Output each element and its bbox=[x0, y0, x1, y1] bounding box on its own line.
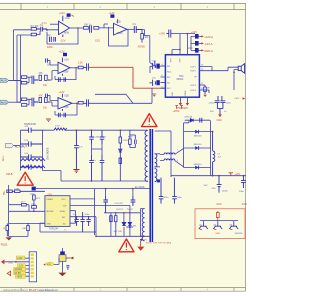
capacitor X2 bbox=[20, 140, 42, 147]
svg-text:U2B: U2B bbox=[64, 95, 69, 98]
IC right out wires bbox=[199, 67, 238, 71]
svg-text:PWRGND: PWRGND bbox=[177, 107, 188, 110]
svg-text:AGND: AGND bbox=[138, 45, 145, 48]
resistor R3 bbox=[84, 27, 89, 30]
svg-text:VCC: VCC bbox=[61, 199, 66, 201]
wire aux winding pins bbox=[140, 209, 144, 237]
resistor standby red bbox=[216, 211, 219, 221]
capacitor blue top Q bbox=[60, 251, 65, 254]
snubber cluster at xfmr bbox=[128, 130, 136, 147]
node stage3 out bbox=[76, 103, 78, 105]
wire R4 to buffer bbox=[99, 24, 114, 28]
wire X-cap rail right bbox=[42, 130, 44, 170]
svg-text:1N4148: 1N4148 bbox=[184, 117, 192, 119]
capacitor snubber bbox=[200, 118, 202, 123]
wire U2A output bbox=[70, 67, 78, 69]
wire U2A minus loop bbox=[47, 60, 58, 65]
svg-text:OUT2: OUT2 bbox=[190, 71, 197, 73]
capacitor X4 bbox=[20, 164, 42, 169]
ground pwm dark red bbox=[6, 237, 12, 240]
warning triangle 3 bbox=[119, 239, 134, 252]
capacitor stage3 fb bbox=[58, 113, 65, 117]
svg-text:4K7 10K: 4K7 10K bbox=[114, 231, 123, 233]
resistor startup Rb bbox=[12, 188, 45, 192]
svg-text:SD: SD bbox=[63, 223, 66, 225]
resistor opto b bbox=[115, 216, 118, 227]
wire standby bus bbox=[200, 221, 238, 223]
wire junction to op-amp bbox=[47, 30, 59, 31]
wire into U2A bbox=[49, 71, 58, 80]
svg-text:470u: 470u bbox=[164, 197, 170, 199]
resistor startup Ra bbox=[7, 190, 12, 193]
svg-text:-12V-A: -12V-A bbox=[204, 42, 212, 46]
svg-text:+12V: +12V bbox=[109, 11, 115, 15]
node rail a bbox=[212, 175, 214, 177]
speaker LS1 bbox=[238, 64, 244, 74]
inductor L2 vertical bbox=[213, 132, 222, 176]
svg-text:NC1: NC1 bbox=[167, 72, 172, 74]
capacitor stage3 upper bbox=[46, 94, 48, 98]
wire left bus 2 bbox=[17, 35, 21, 102]
svg-text:C0G: C0G bbox=[95, 40, 100, 43]
label pin6 yellow bbox=[15, 275, 25, 279]
title line bbox=[3, 288, 58, 292]
transistor Q3 bbox=[229, 223, 238, 230]
wire port AUX1 to network bbox=[9, 79, 21, 81]
svg-text:U2A: U2A bbox=[64, 58, 69, 61]
transformer aux winding bbox=[142, 209, 144, 241]
svg-text:+26V: +26V bbox=[235, 174, 241, 176]
wire rect box left rail bbox=[184, 120, 211, 176]
svg-text:CM-B: CM-B bbox=[6, 173, 13, 176]
capacitor out C31 bbox=[239, 176, 246, 193]
connector J1 bbox=[29, 252, 36, 282]
svg-text:2.2K: 2.2K bbox=[78, 63, 83, 65]
svg-text:C24 472: C24 472 bbox=[115, 203, 124, 205]
wire stage2 input row bbox=[9, 79, 22, 81]
svg-text:1mH: 1mH bbox=[55, 126, 60, 128]
svg-text:R 47: R 47 bbox=[128, 137, 133, 139]
capacitor out C30 bbox=[211, 176, 228, 193]
capacitor supply row2 bbox=[191, 41, 213, 46]
capacitor C4 bbox=[133, 24, 142, 33]
arrow open red pin5 bbox=[7, 271, 10, 275]
svg-text:35V: 35V bbox=[204, 185, 208, 187]
wire pwm mid row bbox=[9, 200, 45, 211]
capacitor beside Q4 bbox=[66, 265, 69, 270]
wire U3A minus bbox=[47, 95, 58, 100]
warning triangle 1 bbox=[17, 172, 33, 185]
resistor R1 bbox=[31, 25, 39, 30]
resistor R8 network stage2 bbox=[39, 73, 48, 80]
svg-text:SB5100: SB5100 bbox=[194, 136, 203, 138]
transistor Q1 bbox=[199, 223, 208, 230]
svg-text:MODE: MODE bbox=[185, 90, 187, 97]
IC U101 PWM yellow bbox=[45, 196, 70, 227]
node stage1 out bbox=[77, 27, 79, 29]
power arrow +26V top bbox=[173, 106, 183, 113]
wire U1A feedback loop bbox=[47, 28, 78, 44]
wire stage2 out red bbox=[88, 67, 165, 88]
diode D12 bbox=[184, 164, 211, 170]
inductor sec coil 1 bbox=[164, 153, 175, 155]
capacitor C9 bbox=[83, 99, 88, 106]
wire U3A output bbox=[72, 102, 78, 104]
svg-text:220K: 220K bbox=[123, 140, 129, 142]
arrow small red pin2 bbox=[15, 261, 17, 263]
svg-text:oldfriend(Pow.) Rev:C BY-LPY w: oldfriend(Pow.) Rev:C BY-LPY www.flowerj… bbox=[3, 288, 58, 292]
node bus bot bbox=[91, 180, 93, 182]
ground amp supply red bbox=[217, 114, 222, 122]
svg-text:GND: GND bbox=[215, 233, 220, 235]
wire stage1 input top bbox=[14, 29, 32, 31]
wire U3A feedback loop bbox=[55, 103, 77, 115]
resistor R6 bbox=[21, 76, 26, 79]
resistor RC26 bbox=[3, 223, 9, 236]
node pwm a bbox=[8, 191, 10, 193]
resistor R7 bbox=[21, 81, 26, 84]
zobel resistor network bbox=[199, 85, 210, 94]
capacitor amp vcc bbox=[166, 30, 170, 38]
node opto t3 bbox=[129, 212, 131, 214]
capacitor pwm vcc2 bbox=[131, 196, 136, 206]
wire port AUX2 to network bbox=[9, 101, 21, 103]
label pin3 yellow bbox=[17, 264, 25, 268]
svg-text:OUT1: OUT1 bbox=[190, 67, 197, 69]
node bottom rail bbox=[95, 236, 97, 238]
op-amp U2A stage2 bbox=[58, 58, 70, 76]
node speaker bbox=[233, 72, 235, 74]
svg-text:100n: 100n bbox=[239, 191, 245, 193]
svg-text:47K: 47K bbox=[39, 95, 44, 97]
svg-text:S/SEL: S/SEL bbox=[60, 211, 67, 213]
capacitor stage2 upper C6 bbox=[46, 58, 51, 66]
diode D10 bbox=[184, 130, 212, 138]
wire +26V rail bbox=[171, 175, 246, 177]
inductor sec coil 2 bbox=[164, 159, 175, 161]
capacitor bus C10 bottom bbox=[89, 155, 96, 181]
wire left bus 3 bbox=[20, 53, 22, 102]
port AC INPUT bbox=[6, 143, 28, 148]
svg-text:4558: 4558 bbox=[117, 32, 123, 35]
capacitor pwm top C bbox=[30, 187, 36, 196]
svg-text:1000u: 1000u bbox=[222, 190, 229, 192]
wire pwm low row bbox=[9, 223, 45, 236]
electrolytic caps under IC row bbox=[73, 212, 91, 232]
svg-text:47K: 47K bbox=[39, 73, 44, 75]
wire U1A output bbox=[70, 27, 84, 29]
wire stage1 input bottom bbox=[17, 35, 31, 53]
transformer secondary winding bbox=[155, 154, 157, 167]
capacitor amp supply filter pair bbox=[209, 96, 232, 109]
wire amp supply bbox=[171, 34, 195, 55]
svg-text:4558: 4558 bbox=[63, 71, 69, 74]
IC bottom pin gnd2 bbox=[186, 97, 190, 105]
ground amp input dark red bbox=[152, 94, 156, 97]
wire gnd Q4 bbox=[61, 268, 63, 273]
label 47K yellow oval bbox=[43, 258, 59, 266]
svg-text:10K: 10K bbox=[144, 37, 149, 39]
port AUX1 bbox=[0, 78, 9, 82]
svg-text:50V: 50V bbox=[210, 111, 214, 113]
resistor R20 bbox=[31, 204, 37, 208]
wire supply drop bbox=[187, 36, 191, 54]
power +12V stub U1A bbox=[59, 11, 74, 17]
TL431 part bbox=[126, 222, 137, 230]
transistor Q4 bbox=[59, 255, 66, 268]
wire connector pins bbox=[4, 258, 29, 276]
wire into U3A bbox=[49, 102, 58, 106]
svg-text:EL817: EL817 bbox=[117, 209, 124, 211]
svg-text:U101: U101 bbox=[47, 194, 53, 196]
wire speaker feed bbox=[234, 70, 238, 90]
wire left bus 1 bbox=[14, 30, 22, 81]
node pwm top rail2 bbox=[132, 188, 134, 190]
frame bottom lines bbox=[0, 288, 246, 292]
capacitor amp supply lower labels bbox=[210, 109, 227, 115]
wire X-cap rail left bbox=[19, 130, 21, 170]
svg-text:4.7u: 4.7u bbox=[42, 22, 47, 25]
resistor opto a bbox=[110, 216, 113, 222]
svg-text:+26V: +26V bbox=[159, 31, 165, 35]
wire U1A minus input bbox=[50, 23, 59, 25]
capacitor C1 bbox=[36, 24, 47, 32]
svg-text:10u: 10u bbox=[43, 107, 48, 110]
resistor R4 bbox=[94, 27, 99, 30]
svg-text:TL431: TL431 bbox=[127, 209, 134, 211]
svg-text:GND: GND bbox=[172, 92, 174, 97]
wire U2A feedback loop bbox=[55, 68, 76, 80]
label pin1 yellow bbox=[16, 256, 25, 260]
ground opto red bbox=[137, 241, 144, 251]
inductor choke winding L bbox=[21, 158, 45, 160]
svg-text:U1B: U1B bbox=[116, 21, 121, 24]
resistor R2 bbox=[31, 31, 40, 36]
svg-text:HV+: HV+ bbox=[4, 190, 6, 195]
wire U1B feedback bbox=[109, 27, 129, 46]
svg-text:EL817 (ON TOP OF) (R4): EL817 (ON TOP OF) (R4) bbox=[146, 243, 171, 245]
svg-text:4558: 4558 bbox=[63, 106, 69, 109]
node bottom rail b bbox=[140, 236, 142, 238]
wire pwm top rail bbox=[36, 189, 150, 235]
svg-text:AC INPUT: AC INPUT bbox=[15, 144, 28, 148]
node amp supply bbox=[179, 49, 181, 51]
node rail b bbox=[218, 175, 220, 177]
snubber resistor bus bbox=[119, 131, 128, 147]
node stage3 in bbox=[48, 101, 50, 103]
capacitor X1 bbox=[20, 126, 42, 133]
svg-text:1u400: 1u400 bbox=[93, 137, 100, 139]
svg-text:AC-L: AC-L bbox=[2, 155, 5, 161]
resistor R5 vertical bbox=[141, 30, 149, 43]
svg-text:NC: NC bbox=[167, 83, 171, 85]
svg-text:GND-A: GND-A bbox=[204, 49, 213, 53]
ground stage3 bbox=[46, 119, 51, 121]
svg-text:2200u: 2200u bbox=[209, 102, 216, 104]
svg-text:OUT4: OUT4 bbox=[190, 90, 197, 92]
label pin5 yellow bbox=[14, 271, 26, 275]
svg-text:AUX1: AUX1 bbox=[1, 79, 8, 83]
svg-text:SB3100: SB3100 bbox=[194, 164, 203, 166]
pad secondary bottom bbox=[157, 179, 160, 182]
node stage1 junction bbox=[46, 29, 48, 31]
transformer primary winding bbox=[145, 131, 148, 182]
wire primary bottom pin bbox=[144, 180, 148, 183]
capacitor C7 bbox=[83, 63, 88, 70]
op-amp U1A bbox=[59, 16, 70, 37]
pin numbers amp IC bbox=[162, 64, 205, 90]
svg-text:DRAIN: DRAIN bbox=[46, 198, 53, 201]
warning triangle 2 bbox=[142, 114, 157, 127]
svg-text:AON2: AON2 bbox=[242, 203, 247, 206]
wire xfmr to rect bbox=[160, 131, 184, 177]
node stage2 in bbox=[48, 79, 50, 81]
svg-text:47K: 47K bbox=[47, 264, 51, 266]
resistor R10 bbox=[21, 98, 26, 101]
capacitor feedback C2 bbox=[48, 35, 56, 42]
capacitor C8 bbox=[32, 98, 38, 107]
IC bottom pin gnd1 bbox=[179, 97, 183, 105]
svg-text:OUT3: OUT3 bbox=[190, 85, 197, 87]
node L2 top bbox=[212, 131, 214, 133]
capacitor supply row1 bbox=[191, 34, 213, 39]
svg-text:VCC: VCC bbox=[188, 47, 193, 50]
transistor Q2 bbox=[213, 223, 222, 230]
capacitor sec small 2 bbox=[172, 178, 182, 204]
power arrow right edge bbox=[243, 97, 246, 100]
wire stage3 out bbox=[88, 102, 133, 104]
resistor R11 bbox=[21, 104, 26, 107]
snubber diode bus bbox=[119, 147, 122, 181]
transformer core bbox=[150, 129, 152, 242]
IC left pin stubs bbox=[161, 66, 166, 88]
svg-text:100n: 100n bbox=[84, 214, 90, 216]
svg-text:CM CHOKE: CM CHOKE bbox=[47, 147, 49, 160]
node bus top 2 bbox=[120, 129, 122, 131]
label pin4 yellow bbox=[14, 267, 26, 271]
power +12V stub U1B bbox=[109, 11, 118, 24]
svg-text:10K 1u: 10K 1u bbox=[84, 25, 92, 27]
node stage2 out bbox=[75, 67, 77, 69]
diode D11 bbox=[184, 144, 211, 150]
svg-text:-12V: -12V bbox=[60, 39, 66, 43]
svg-text:100n: 100n bbox=[177, 197, 183, 199]
zone numbers bbox=[47, 5, 209, 292]
svg-text:TW: TW bbox=[63, 206, 66, 208]
wire AC to filter bbox=[14, 145, 21, 147]
resistor R9 bbox=[78, 63, 83, 69]
svg-text:10R: 10R bbox=[22, 228, 26, 230]
node tl431 bbox=[129, 226, 131, 228]
wire primary top pin bbox=[138, 129, 148, 131]
wire buffer out down to amp bbox=[142, 30, 155, 67]
wire snubber secondary top bbox=[185, 120, 210, 123]
ground zobel red bbox=[203, 95, 206, 97]
node bus top 3 bbox=[91, 129, 93, 131]
IC U5 amplifier bbox=[165, 55, 199, 97]
node pwm top rail bbox=[105, 188, 107, 190]
resistor RC27 bbox=[22, 223, 29, 230]
capacitor sec small 1 bbox=[159, 178, 169, 204]
inductor choke winding N bbox=[21, 166, 45, 168]
svg-text:SENSE: SENSE bbox=[46, 211, 54, 213]
power +12V stub U2A bbox=[58, 49, 67, 56]
svg-text:+12V: +12V bbox=[17, 258, 23, 260]
box standby red bbox=[195, 209, 245, 239]
sheet background bbox=[0, 0, 247, 296]
svg-text:1R: 1R bbox=[207, 88, 210, 90]
svg-text:U1A: U1A bbox=[65, 17, 70, 20]
wire to C5 bbox=[27, 77, 32, 83]
node amp supply b bbox=[187, 33, 189, 35]
capacitor supply row3 bbox=[191, 48, 213, 53]
svg-text:10u: 10u bbox=[43, 84, 48, 87]
ground red stage1 bbox=[138, 43, 145, 49]
node opto led bbox=[123, 224, 125, 226]
resistor R13 bbox=[78, 101, 83, 104]
wire top bbox=[61, 248, 63, 252]
capacitor bus C10 top bbox=[89, 131, 100, 144]
capacitor bus C11 top bbox=[100, 131, 107, 144]
resistor R2K2 bbox=[33, 195, 41, 200]
svg-text:R1 10K: R1 10K bbox=[31, 25, 39, 28]
resistor R12 network stage3 bbox=[39, 95, 48, 102]
inductor L1 bbox=[54, 126, 67, 131]
frame top lines bbox=[0, 3, 246, 9]
svg-text:4558: 4558 bbox=[64, 31, 70, 34]
svg-text:FB101: FB101 bbox=[1, 244, 8, 246]
diode D9 snubber bbox=[184, 117, 193, 122]
capacitor C3 bbox=[90, 25, 92, 32]
frame right line bbox=[245, 3, 247, 291]
svg-text:GND: GND bbox=[217, 120, 222, 122]
node opto out bbox=[140, 239, 142, 241]
capacitor pwm vcc bbox=[103, 196, 108, 213]
capacitor X3 bbox=[20, 153, 42, 160]
wire bus bottom bbox=[43, 171, 145, 181]
svg-text:100K: 100K bbox=[47, 46, 53, 49]
svg-text:AUX2: AUX2 bbox=[1, 101, 8, 105]
svg-text:SB5100: SB5100 bbox=[194, 144, 203, 146]
transformer secondary winding 2 bbox=[155, 168, 157, 181]
opto LED part bbox=[122, 222, 126, 225]
wire cluster2 to pin bbox=[149, 82, 165, 84]
wire secondary pins bbox=[155, 131, 162, 167]
capacitor bus C11 bottom bbox=[100, 155, 105, 181]
svg-text:+5VS: +5VS bbox=[16, 277, 22, 279]
wire opto internals bbox=[116, 227, 130, 236]
wire U1B out bbox=[127, 28, 134, 30]
node rail c bbox=[243, 175, 245, 177]
svg-text:SS8550: SS8550 bbox=[235, 233, 244, 235]
node pwm b bbox=[33, 211, 35, 213]
svg-text:8946A: 8946A bbox=[177, 78, 184, 81]
port AUX2 bbox=[0, 100, 9, 104]
svg-text:TOP224Y: TOP224Y bbox=[49, 229, 60, 231]
wire left rail pwm bbox=[8, 185, 10, 236]
svg-text:GND: GND bbox=[46, 223, 51, 225]
node bus top 1 bbox=[76, 129, 78, 131]
op-amp U3A stage3 bbox=[58, 94, 72, 111]
capacitor bridge cap bbox=[74, 131, 83, 170]
capacitor C5 bbox=[32, 76, 38, 84]
wire pwm right pins bbox=[70, 199, 130, 223]
svg-text:+12V: +12V bbox=[58, 90, 64, 94]
svg-text:+12V: +12V bbox=[191, 30, 197, 34]
resistor R3B bbox=[21, 202, 26, 206]
capacitor amp in1 bbox=[150, 61, 161, 70]
wire filter top to bridge bbox=[43, 129, 139, 131]
